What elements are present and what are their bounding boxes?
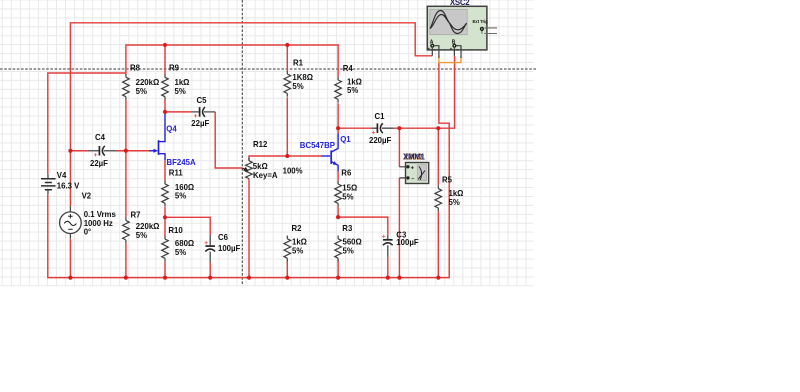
svg-text:R5: R5 (442, 175, 452, 184)
lead C3 (387, 235, 389, 257)
capacitor C1 (369, 112, 391, 145)
svg-text:100%: 100% (283, 166, 303, 175)
svg-text:R11: R11 (169, 168, 183, 177)
wire R7 bottom to ground (125, 243, 127, 277)
wire V2 top lead (69, 151, 71, 207)
svg-text:R1: R1 (293, 58, 303, 67)
junction ground R10 (163, 276, 167, 280)
wire base node (249, 156, 321, 161)
wire drain node (165, 100, 191, 112)
junction base node at R1 (285, 154, 289, 158)
junction ground R7 (124, 276, 128, 280)
junction input node at V2 riser (68, 149, 72, 153)
wire C6 bottom to ground (209, 262, 211, 277)
wire emitter to R6 (337, 171, 339, 181)
resistor R6 (335, 168, 358, 207)
svg-text:C4: C4 (95, 133, 105, 142)
svg-text:BC547BP: BC547BP (300, 141, 336, 150)
resistor R5 (435, 175, 464, 211)
svg-text:XSC2: XSC2 (450, 0, 470, 7)
wire XMM1 minus to ground (398, 178, 400, 278)
svg-text:C1: C1 (375, 112, 385, 121)
wire R12 bottom to ground (248, 179, 250, 278)
battery V4 (41, 171, 80, 194)
wire R6 bottom node (337, 207, 339, 217)
lead C5 (191, 111, 215, 113)
svg-text:Q4: Q4 (166, 124, 177, 133)
wire R10 bottom to ground (164, 262, 166, 278)
svg-text:5%: 5% (136, 87, 147, 96)
junction ground XMM1 (397, 276, 401, 280)
junction emitter node (336, 215, 340, 219)
svg-text:5%: 5% (175, 191, 186, 200)
lead C1 (371, 127, 393, 129)
svg-text:R12: R12 (253, 140, 268, 149)
svg-text:220kΩ: 220kΩ (136, 78, 160, 87)
svg-text:100µF: 100µF (218, 244, 240, 253)
svg-text:C6: C6 (218, 233, 228, 242)
svg-text:1kΩ: 1kΩ (175, 78, 190, 87)
svg-text:15Ω: 15Ω (342, 183, 357, 192)
wire R11 bottom node (164, 207, 166, 217)
transistor Q4 (JFET BF245A) (149, 112, 196, 181)
svg-text:16.3 V: 16.3 V (57, 181, 80, 190)
svg-text:C5: C5 (197, 96, 207, 105)
svg-text:5%: 5% (342, 192, 353, 201)
resistor R11 (162, 168, 195, 206)
svg-text:R9: R9 (169, 63, 179, 72)
svg-text:XMM1: XMM1 (403, 153, 426, 162)
junction input node at R7/R8 (124, 149, 128, 153)
svg-text:22µF: 22µF (191, 119, 209, 128)
wire scope A- to B- link (439, 57, 461, 63)
svg-text:5%: 5% (175, 248, 186, 257)
svg-text:0°: 0° (84, 227, 91, 236)
svg-text:Q1: Q1 (340, 135, 351, 144)
wire R5 top (437, 128, 439, 185)
junction ground R5 (436, 276, 440, 280)
junction R11/R10 node (163, 215, 167, 219)
junction ground R12 (247, 276, 251, 280)
svg-text:220kΩ: 220kΩ (136, 222, 160, 231)
resistor R7 (123, 210, 160, 243)
junction output at R5 (436, 126, 440, 130)
svg-text:5%: 5% (175, 87, 186, 96)
potentiometer R12 (242, 140, 302, 180)
capacitor C3 (382, 230, 419, 247)
wire XMM1 plus riser (398, 128, 400, 167)
svg-text:R6: R6 (341, 168, 351, 177)
wire R4 bottom to collector node (337, 103, 339, 128)
wire node to C6 (165, 217, 210, 235)
svg-text:R4: R4 (343, 64, 353, 73)
svg-text:R8: R8 (130, 63, 140, 72)
wire R1 top feed (286, 45, 288, 71)
wire V2 top riser to scope A (70, 23, 432, 151)
wire R10 top (164, 217, 166, 236)
svg-text:680Ω: 680Ω (175, 239, 195, 248)
resistor R2 (284, 224, 307, 262)
junction VCC/R9 (163, 43, 167, 47)
wire input node (C4/R7/R8/gate) (70, 150, 87, 152)
lead C6 (209, 235, 211, 263)
capacitor C4 (90, 133, 108, 168)
svg-text:Key=A: Key=A (253, 171, 278, 180)
resistor R9 (162, 63, 190, 100)
wire R9 top feed (164, 45, 166, 74)
wire R5 bottom to ground (437, 211, 439, 277)
svg-text:5%: 5% (347, 86, 358, 95)
svg-text:V4: V4 (57, 171, 67, 180)
wire collector node to C1 (338, 127, 371, 129)
svg-text:BF245A: BF245A (167, 158, 196, 167)
wire R1 bottom to base node (286, 97, 288, 156)
wire C1 to scope B / output (393, 56, 454, 128)
wire R3 bottom to ground (337, 260, 339, 277)
capacitor C6 (204, 233, 240, 253)
wire C5 to R12 wiper (215, 112, 242, 168)
svg-text:5%: 5% (449, 198, 460, 207)
junction ground V2 (68, 276, 72, 280)
resistor R8 (123, 63, 160, 100)
svg-text:R10: R10 (168, 226, 183, 235)
junction output at XMM1 (397, 126, 401, 130)
wire ground rail and scope ground return (48, 63, 449, 278)
svg-text:1kΩ: 1kΩ (292, 237, 307, 246)
wire emitter node to C3 (338, 217, 388, 235)
wire R8 bottom to input node (125, 100, 127, 151)
junction ground R3 (336, 276, 340, 280)
svg-text:R7: R7 (131, 210, 141, 219)
multimeter XMM1 (399, 153, 428, 184)
svg-text:220µF: 220µF (369, 136, 391, 145)
svg-text:5%: 5% (343, 246, 354, 255)
junction ground C6 (208, 276, 212, 280)
svg-text:+: + (204, 240, 208, 247)
wire R7 top (125, 151, 127, 217)
junction collector node (336, 126, 340, 130)
AC source V2 (60, 191, 117, 239)
svg-text:22µF: 22µF (90, 159, 108, 168)
wire R2 bottom to ground (286, 260, 288, 277)
junction VCC/R1 (285, 43, 289, 47)
wire C4 to gate (115, 150, 149, 152)
svg-text:5%: 5% (292, 82, 303, 91)
resistor R1 (284, 58, 313, 96)
resistor R10 (162, 226, 195, 262)
wire V4+ to VCC riser (48, 73, 126, 174)
wire C3 bottom to ground (387, 257, 389, 278)
svg-text:100µF: 100µF (396, 238, 418, 247)
svg-text:1kΩ: 1kΩ (449, 189, 464, 198)
svg-text:V2: V2 (82, 191, 92, 200)
wire V2 bottom to ground (69, 239, 71, 278)
svg-text:Ext Trig: Ext Trig (473, 19, 489, 24)
junction ground C3 (386, 276, 390, 280)
svg-text:560Ω: 560Ω (343, 237, 363, 246)
junction drain node (163, 110, 167, 114)
junction ground R2 (285, 276, 289, 280)
resistor R3 (335, 224, 362, 262)
svg-text:5%: 5% (136, 231, 147, 240)
oscilloscope XSC2 (427, 0, 497, 58)
svg-text:5%: 5% (292, 246, 303, 255)
capacitor C5 (191, 96, 209, 128)
svg-text:R2: R2 (292, 224, 302, 233)
wire VCC rail (126, 45, 338, 77)
lead C4 (88, 150, 115, 152)
svg-text:+: + (382, 234, 386, 241)
resistor R4 (335, 64, 363, 103)
svg-text:R3: R3 (342, 224, 352, 233)
transistor Q1 (BJT BC547BP) (300, 128, 351, 171)
